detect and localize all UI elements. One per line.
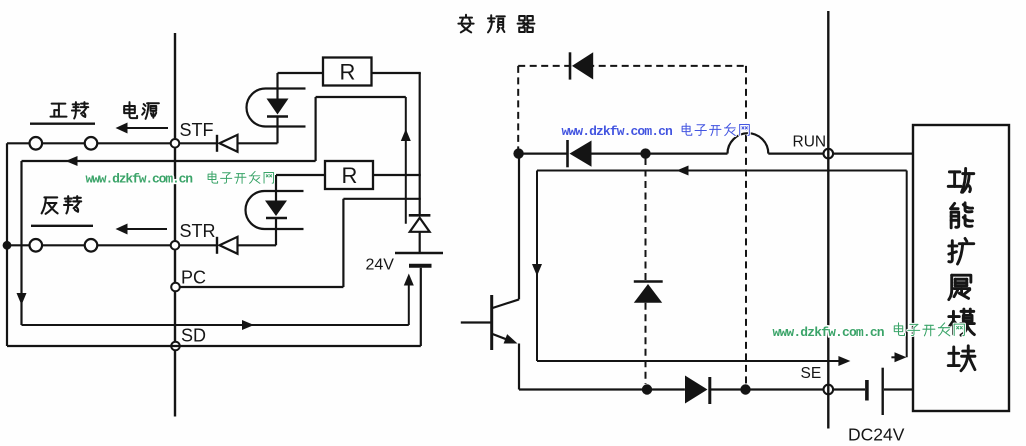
svg-text:R: R: [340, 60, 356, 85]
wire R2 to supply vertical: [373, 174, 421, 176]
opto1 LED anode lead: [276, 73, 278, 100]
supply vertical wire: [419, 73, 421, 215]
diode D7 on SE wire (solid, right): [685, 376, 708, 404]
protection diode D3 triangle: [410, 218, 430, 232]
junction dot SE 1: [642, 384, 652, 394]
SE wire from emitter: [519, 388, 685, 390]
junction dot left vertical / STR: [3, 241, 12, 250]
RUN wire diode to hop: [592, 153, 728, 155]
bottom return horizontal y325: [22, 324, 409, 326]
battery to SD wire vertical: [420, 268, 422, 346]
diode D6 triangle (solid, up): [634, 284, 662, 303]
label 反转 (reverse): [42, 197, 58, 213]
RUN terminal circle: [824, 149, 834, 159]
dashed center vertical lower: [645, 303, 647, 384]
inner loop right vertical: [906, 171, 908, 358]
optocoupler PC1 enclosure arc: [247, 89, 266, 127]
battery 24V plus bar: [395, 252, 443, 255]
phototransistor frame opto1: left drop: [315, 97, 317, 161]
diode D4 on dashed wire (solid): [569, 52, 572, 79]
junction dot mid RUN: [640, 148, 650, 158]
wire R1 to supply vertical: [372, 72, 421, 74]
optocoupler PC1 enclosure top line: [266, 87, 306, 89]
wire STF to node: [97, 142, 171, 144]
wire diode2 to opto2 led: [237, 244, 277, 246]
wire between STR circles: [42, 244, 85, 246]
SE wire diode to terminal: [710, 388, 824, 390]
junction dot SE 2: [740, 384, 750, 394]
svg-text:DC24V: DC24V: [848, 425, 905, 445]
function expansion module box: [913, 125, 1009, 411]
terminal circle STF a: [30, 137, 43, 150]
reverse arrow: [126, 228, 167, 230]
return wire row y161: [22, 160, 316, 162]
diode D5 on RUN wire: [566, 140, 569, 167]
node PC (open): [171, 283, 180, 292]
inner loop bottom wire with arrow: [537, 360, 845, 362]
current arrow up to battery minus: [408, 277, 410, 325]
optocoupler PC2 enclosure arc: [246, 191, 265, 229]
transistor Q1 collector diagonal: [493, 299, 520, 308]
left loop vertical 2: [20, 161, 22, 325]
wire STR row left stub: [7, 244, 30, 246]
optocoupler PC2 enclosure bottom line: [265, 228, 304, 230]
diode D1 on STF: [216, 135, 218, 152]
node SD (open): [171, 342, 180, 351]
opto1 LED triangle: [267, 99, 289, 115]
junction dot at collector top: [513, 148, 523, 158]
emitter down vertical: [518, 344, 520, 390]
svg-text:RUN: RUN: [793, 134, 827, 151]
opto2 LED cathode bar: [266, 217, 287, 220]
dashed drop left: [517, 66, 519, 149]
svg-text:SE: SE: [801, 365, 822, 382]
dashed center vertical upper: [645, 158, 647, 282]
svg-text:www.dzkfw.com.cn: www.dzkfw.com.cn: [562, 124, 674, 139]
battery 24V minus bar: [409, 264, 432, 268]
svg-text:24V: 24V: [366, 257, 395, 274]
opto1 LED cathode bar: [267, 115, 288, 118]
module label 功能扩展模块: [948, 168, 974, 192]
label 正转 (forward): [51, 104, 67, 117]
opto2 LED anode lead: [275, 175, 277, 202]
left arrow on inner loop top: [677, 166, 689, 176]
down arrow on left loop: [17, 293, 27, 305]
wire: input common vertical (terminal strip): [174, 33, 176, 417]
resistor R2 box: [325, 161, 373, 189]
right arrow on bottom return: [242, 320, 254, 330]
transistor Q1 base bar: [490, 295, 493, 350]
battery DC24V minus bar: [865, 380, 869, 401]
RUN wire to module box: [833, 153, 913, 155]
wire STF row left stub: [7, 142, 30, 144]
wire diode to opto1 led: [237, 142, 278, 144]
svg-text:SD: SD: [181, 326, 206, 346]
optocoupler PC2 enclosure top line: [265, 190, 304, 192]
wire STF node to diode: [179, 142, 217, 144]
svg-text:www.dzkfw.com.cn: www.dzkfw.com.cn: [86, 172, 194, 187]
left vertical wire (common): [6, 143, 8, 346]
wire STR node to diode: [179, 244, 217, 246]
SE wire to battery: [833, 388, 865, 390]
resistor R1 box: [323, 58, 372, 86]
protection diode D3 cathode bar: [409, 214, 431, 217]
reverse switch underline: [31, 225, 93, 227]
wire opto2 to R2: [276, 174, 325, 176]
terminal circle STR b: [85, 239, 98, 252]
inner loop left vertical: [536, 171, 538, 362]
opto1 LED cathode lead: [276, 117, 278, 144]
wire D3 to battery: [419, 232, 421, 252]
svg-text:STF: STF: [180, 120, 214, 140]
svg-text:www.dzkfw.com.cn: www.dzkfw.com.cn: [773, 325, 885, 340]
wire STR to node: [97, 244, 171, 246]
current arrow line (up) near supply: [405, 97, 407, 224]
svg-text:STR: STR: [180, 221, 216, 241]
label 变频器 (inverter): [458, 15, 473, 33]
optocoupler PC1 enclosure bottom line: [266, 125, 306, 127]
arrow into right vertical bottom: [891, 356, 901, 358]
forward switch underline: [30, 122, 95, 124]
dashed drop right (long): [745, 66, 747, 384]
diode D6 cathode bar: [634, 280, 663, 283]
PC riser vertical: [342, 199, 344, 287]
phototransistor frame opto1: top wire: [316, 96, 406, 98]
return wire left arrowhead: [66, 156, 78, 166]
down arrow on inner loop left: [532, 264, 542, 276]
SE terminal circle: [824, 385, 834, 395]
wire battery to module box: [884, 388, 913, 390]
RUN wire from junction: [519, 153, 567, 155]
svg-text:PC: PC: [181, 268, 206, 288]
PC top horizontal to supply: [343, 198, 420, 200]
transistor Q1 base lead: [461, 321, 492, 323]
svg-text:R: R: [342, 163, 358, 188]
opto2 LED cathode lead: [275, 218, 277, 245]
wire between STF circles: [42, 142, 85, 144]
diode D2 on STR: [216, 237, 218, 254]
wire hop over dashed line: [728, 133, 769, 153]
battery DC24V plus bar: [882, 368, 884, 415]
terminal circle STF b: [85, 137, 98, 150]
inner loop top wire: [537, 170, 907, 172]
terminal strip vertical (right): [827, 11, 829, 429]
transistor Q1 emitter diagonal with arrow: [493, 334, 513, 342]
wire SD row: [7, 345, 421, 347]
terminal circle STR a: [30, 239, 43, 252]
label 电源 (power): [124, 102, 137, 118]
transistor Q1 collector vertical: [518, 158, 520, 299]
node STR (open): [171, 241, 180, 250]
wire opto1 to R1: [278, 72, 324, 74]
power arrow: [126, 127, 168, 129]
RUN wire hop to terminal: [768, 153, 823, 155]
opto2 LED triangle: [265, 201, 287, 217]
wire PC to riser: [180, 286, 344, 288]
node STF (open): [171, 139, 180, 148]
dashed feedback top wire: [518, 65, 746, 67]
